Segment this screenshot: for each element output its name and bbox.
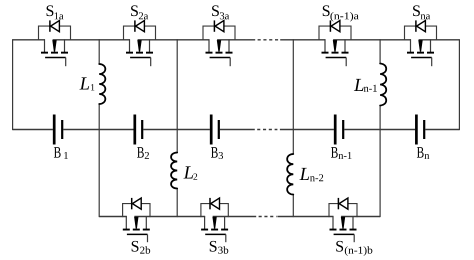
wire node n-2: L(n-2) to bottom rail <box>292 195 294 218</box>
switch Sna gate lead <box>431 58 433 67</box>
switch S2b gate plate <box>127 233 148 235</box>
wire battery rail: B2 to B3 <box>143 129 210 131</box>
wire node n-2: top rail through battery rail to L(n-2) <box>292 39 294 154</box>
wire right edge (top rail to battery rail) <box>458 39 460 130</box>
label L1 <box>79 77 94 90</box>
label Ln-1 <box>354 79 377 92</box>
switch S(n-1)b body diode (cathode bar + triangle) <box>338 198 348 209</box>
label S2a <box>131 5 148 19</box>
battery B3 positive (long) plate <box>210 115 213 145</box>
inductor L1 coil <box>99 64 105 104</box>
label L2 <box>183 166 197 179</box>
switch Sna body-diode loop wire <box>405 26 437 40</box>
wire top rail: S2a to S3a <box>138 39 210 41</box>
wire top rail: S1a to S2a <box>53 39 130 41</box>
battery B(n-1) negative (short) plate <box>342 120 344 139</box>
switch S3a gate lead <box>229 58 231 67</box>
wire node 2: L2 to bottom rail <box>176 189 178 218</box>
label B3 <box>211 147 223 159</box>
switch S1a body diode (cathode bar + triangle) <box>50 20 60 31</box>
switch S3a gate plate <box>210 57 231 59</box>
battery Bn positive (long) plate <box>415 115 418 145</box>
label B2 <box>137 147 149 159</box>
switch S2a body-diode loop wire <box>124 26 156 40</box>
wire node n-1 riser: top rail to L(n-1) <box>379 39 381 63</box>
switch S(n-1)a body-diode loop wire <box>319 26 351 40</box>
switch S1a body arrow <box>52 40 56 52</box>
switch Sna body arrow <box>418 40 422 52</box>
wire top rail: S3a to ellipsis <box>217 39 255 41</box>
switch S3a contact bars <box>206 52 233 54</box>
switch S2a gate lead <box>150 58 152 67</box>
switch Sna drain lead <box>430 39 432 52</box>
wire battery rail: B1 to B2 <box>63 129 133 131</box>
switch S(n-1)a source lead <box>324 39 326 52</box>
switch S2a contact bars <box>126 52 153 54</box>
wire bottom rail dashed ellipsis <box>259 216 277 218</box>
switch S3b contact bars <box>201 229 228 231</box>
label S3b <box>210 241 229 254</box>
wire left edge (top rail to battery rail) <box>12 39 14 130</box>
label S3a <box>212 5 229 19</box>
switch S3b body-diode loop wire <box>201 204 228 218</box>
switch S(n-1)b body-diode loop wire <box>329 204 357 218</box>
wire battery rail: Bn to right corner <box>425 129 459 131</box>
label Ln-2 <box>299 168 323 181</box>
wire top rail: left corner to S1a <box>13 39 45 41</box>
switch S(n-1)a contact bars <box>322 52 349 54</box>
switch S2b gate lead <box>147 234 149 242</box>
inductor L(n-1) coil <box>380 64 386 106</box>
switch S1a source lead <box>44 39 46 52</box>
switch S1a body-diode loop wire <box>39 26 71 40</box>
switch S2b drain lead <box>145 216 147 229</box>
switch S2b body diode (cathode bar + triangle) <box>132 198 142 209</box>
switch S1a gate plate <box>45 57 66 59</box>
label S(n-1)a <box>323 5 359 21</box>
switch Sna body diode (cathode bar + triangle) <box>416 20 426 31</box>
switch S1a gate lead <box>65 58 67 67</box>
wire bottom rail: S(n-1)b to right corner <box>341 216 380 218</box>
label S2b <box>132 241 151 254</box>
switch S(n-1)a gate plate <box>326 57 347 59</box>
switch S2a drain lead <box>149 39 151 52</box>
battery B1 negative (short) plate <box>61 120 63 139</box>
wire battery rail dashed ellipsis <box>257 129 277 131</box>
wire top rail: S(n-1)a to Sna <box>333 39 411 41</box>
label Sna <box>413 5 430 19</box>
wire bottom rail: left corner to S2b <box>99 216 127 218</box>
wire node 1 riser: top rail to L1 <box>98 39 100 64</box>
switch S(n-1)a drain lead <box>344 39 346 52</box>
wire bottom rail: ellipsis to S(n-1)b <box>277 216 333 218</box>
switch S3b body diode (cathode bar + triangle) <box>210 198 220 209</box>
switch S(n-1)b gate plate <box>334 233 355 235</box>
inductor L2 coil <box>171 153 177 189</box>
switch S2b body arrow <box>134 217 138 229</box>
label Bn <box>417 147 429 159</box>
switch Sna gate plate <box>411 57 432 59</box>
label S(n-1)b <box>336 241 372 256</box>
switch S(n-1)b body arrow <box>341 217 345 229</box>
switch S(n-1)b drain lead <box>352 216 354 229</box>
switch S3b drain lead <box>224 216 226 229</box>
switch S3b source lead <box>204 216 206 229</box>
wire bottom rail: S3b to ellipsis <box>213 216 257 218</box>
battery B3 negative (short) plate <box>218 120 220 139</box>
battery Bn negative (short) plate <box>423 120 425 139</box>
switch S3a drain lead <box>228 39 230 52</box>
wire battery rail: B(n-1) to Bn <box>344 129 415 131</box>
switch S3a body-diode loop wire <box>203 26 235 40</box>
inductor L(n-2) coil <box>287 154 293 195</box>
switch S2a body diode (cathode bar + triangle) <box>135 20 145 31</box>
switch S3a source lead <box>208 39 210 52</box>
label S1a <box>47 5 64 19</box>
switch S3a body arrow <box>217 40 221 52</box>
switch S(n-1)a body arrow <box>333 40 337 52</box>
switch S(n-1)b source lead <box>332 216 334 229</box>
battery B(n-1) positive (long) plate <box>334 115 337 145</box>
wire top rail: Sna to right corner <box>419 39 460 41</box>
battery B1 positive (long) plate <box>53 115 56 145</box>
wire node 2: top rail through battery rail to L2 <box>176 39 178 152</box>
wire top rail: ellipsis to S(n-1)a <box>280 39 325 41</box>
switch Sna source lead <box>410 39 412 52</box>
switch S3b gate plate <box>205 233 226 235</box>
wire battery rail: ellipsis to B(n-1) <box>280 129 334 131</box>
switch S3b gate lead <box>225 234 227 242</box>
switch S2b contact bars <box>123 229 150 231</box>
battery B2 negative (short) plate <box>141 120 143 139</box>
wire battery rail: B3 to ellipsis <box>220 129 255 131</box>
wire node n-1: L(n-1) to bottom rail <box>379 106 381 218</box>
switch S2b source lead <box>125 216 127 229</box>
switch S3a body diode (cathode bar + triangle) <box>214 20 224 31</box>
switch S(n-1)b contact bars <box>330 229 357 231</box>
switch Sna contact bars <box>407 52 434 54</box>
switch S2b body-diode loop wire <box>123 204 150 218</box>
switch S(n-1)b gate lead <box>353 234 355 242</box>
battery B2 positive (long) plate <box>133 115 136 145</box>
switch S(n-1)a gate lead <box>345 58 347 67</box>
switch S1a drain lead <box>64 39 66 52</box>
wire top rail dashed ellipsis <box>258 39 280 41</box>
switch S(n-1)a body diode (cathode bar + triangle) <box>330 20 340 31</box>
wire battery rail: left corner to B1 <box>13 129 53 131</box>
switch S2a body arrow <box>137 40 141 52</box>
label Bn-1 <box>331 147 352 159</box>
switch S2a source lead <box>129 39 131 52</box>
wire node 1: L1 to bottom rail <box>98 104 100 217</box>
switch S3b body arrow <box>212 217 216 229</box>
label B1 <box>54 147 68 159</box>
wire bottom rail: S2b to S3b <box>134 216 205 218</box>
switch S1a contact bars <box>41 52 68 54</box>
switch S2a gate plate <box>130 57 151 59</box>
